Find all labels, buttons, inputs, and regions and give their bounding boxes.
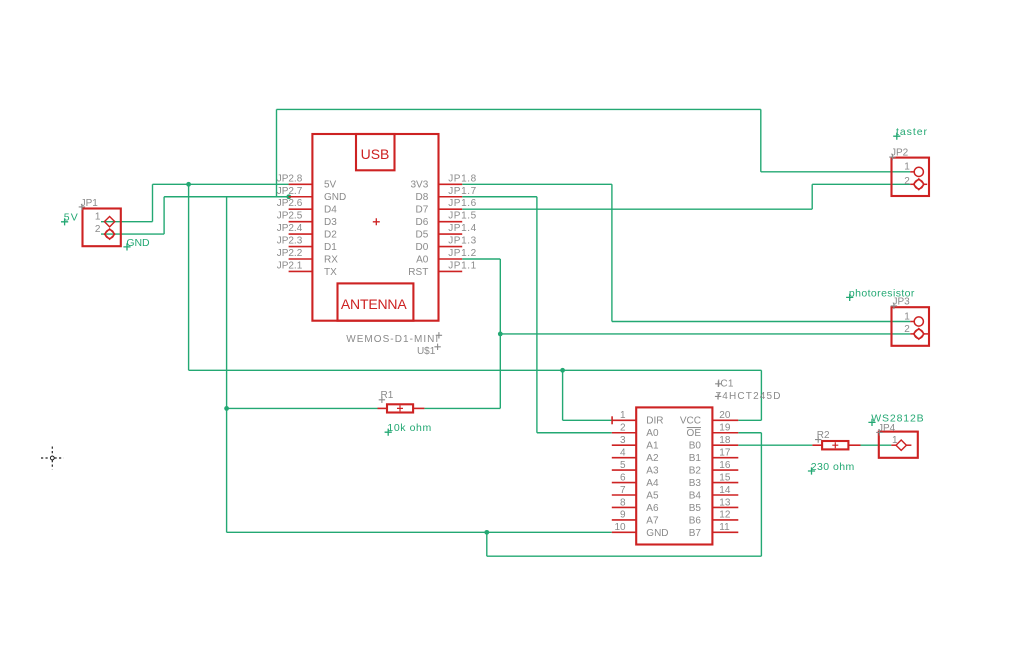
- wire net 5V: into IC1 pin20 VCC: [738, 419, 761, 421]
- junction 5V at (188.6,184.3): [186, 182, 191, 187]
- wire net 3V3: from U$1 3V3 (JP1.8): [462, 183, 612, 185]
- svg-text:taster: taster: [896, 126, 928, 138]
- U$1 left pin D2 / net label JP2.4: [277, 223, 338, 240]
- svg-text:2: 2: [95, 224, 101, 235]
- svg-text:3V3: 3V3: [411, 180, 429, 191]
- U$1 left pin TX / net label JP2.1: [277, 260, 337, 277]
- U$1 right pin D8 / net label JP1.7: [416, 186, 477, 203]
- R1 value 10k ohm: [385, 422, 432, 436]
- svg-text:2: 2: [904, 176, 910, 187]
- U$1 left pin 5V / net label JP2.8: [277, 173, 337, 190]
- connector JP2 box: [892, 158, 930, 196]
- JP3 value photoresistor: [846, 287, 915, 301]
- svg-text:B6: B6: [689, 515, 702, 526]
- svg-text:5: 5: [620, 460, 626, 471]
- JP1 pin 1: [95, 212, 115, 227]
- svg-text:D4: D4: [324, 205, 337, 216]
- wire net A0: vertical down: [499, 259, 501, 408]
- svg-text:A3: A3: [646, 466, 659, 477]
- svg-text:5V: 5V: [324, 180, 337, 191]
- wire net GND: horizontal to U$1 GND pin: [164, 196, 289, 198]
- U$1 left pin RX / net label JP2.2: [277, 248, 339, 265]
- svg-text:8: 8: [620, 497, 626, 508]
- wire net GND: horizontal to IC1 pin10 GND: [227, 531, 612, 533]
- svg-text:20: 20: [719, 410, 731, 421]
- wire net GND: top horizontal y109: [277, 108, 761, 110]
- JP1 refdes: [79, 198, 99, 210]
- svg-text:6: 6: [620, 472, 626, 483]
- resistor R2: [812, 441, 860, 449]
- svg-text:B1: B1: [689, 453, 702, 464]
- wire net D8: into IC1 pin2 A0: [537, 432, 612, 434]
- wire net TASTER: from U$1 D7 (JP1.6): [462, 208, 812, 210]
- module U$1 WEMOS-D1-MINI body: [312, 134, 438, 321]
- wire net A0: into JP3 pin2: [500, 333, 910, 335]
- svg-text:74HCT245D: 74HCT245D: [716, 391, 781, 402]
- svg-text:JP2.6: JP2.6: [277, 198, 303, 209]
- junction GND at (226.6,408.4): [224, 406, 229, 411]
- svg-text:230 ohm: 230 ohm: [811, 461, 855, 473]
- wire net 5V: vertical up: [152, 184, 154, 221]
- wire net GND: R1 left lead to GND vertical: [227, 407, 378, 409]
- wire net 5V: drop to IC1 DIR: [562, 370, 564, 420]
- svg-text:OE: OE: [687, 428, 702, 439]
- JP1 value 5V: [61, 212, 78, 226]
- svg-text:JP2.8: JP2.8: [277, 173, 303, 184]
- svg-text:B3: B3: [689, 478, 702, 489]
- U$1 left pin D4 / net label JP2.6: [277, 198, 338, 215]
- R2 value 230 ohm: [808, 461, 855, 475]
- IC1 pin 7 A5: [612, 485, 659, 502]
- svg-text:D5: D5: [416, 230, 429, 241]
- IC1 pin 13 B5: [689, 497, 739, 514]
- svg-text:4: 4: [620, 447, 626, 458]
- svg-text:U$1: U$1: [417, 346, 436, 357]
- svg-text:A6: A6: [646, 503, 659, 514]
- JP2 pin 1: [904, 161, 923, 176]
- wire net TASTER: into JP2 pin2: [812, 183, 910, 185]
- wire net A0: from U$1 A0 (JP1.2): [462, 258, 500, 260]
- svg-text:RST: RST: [408, 267, 428, 278]
- svg-text:D7: D7: [416, 205, 429, 216]
- svg-text:10k ohm: 10k ohm: [387, 422, 431, 434]
- svg-text:photoresistor: photoresistor: [849, 287, 915, 299]
- svg-text:JP1.7: JP1.7: [448, 186, 476, 197]
- U$1 right pin D0 / net label JP1.3: [416, 236, 477, 253]
- svg-text:JP1.6: JP1.6: [448, 198, 476, 209]
- IC1 pin 1 DIR: [612, 410, 664, 427]
- wire net 5V: long horizontal y370: [189, 369, 762, 371]
- svg-text:3: 3: [620, 435, 626, 446]
- svg-text:A0: A0: [416, 254, 429, 265]
- junction A0 at (500.3,333.9): [498, 332, 503, 337]
- svg-text:JP1.4: JP1.4: [448, 223, 476, 234]
- wire net GND: branch down from x486.8: [486, 532, 488, 556]
- svg-text:10: 10: [614, 522, 626, 533]
- svg-text:JP1.3: JP1.3: [448, 236, 476, 247]
- wire net GND: into IC1 pin19 OE: [738, 432, 761, 434]
- U$1 left pin GND / net label JP2.7: [277, 186, 347, 203]
- connector JP4 box: [879, 432, 918, 458]
- svg-text:WEMOS-D1-MINI: WEMOS-D1-MINI: [346, 334, 438, 345]
- svg-text:B7: B7: [689, 528, 702, 539]
- svg-text:B5: B5: [689, 503, 702, 514]
- wire net 3V3: into JP3 pin1: [612, 321, 910, 323]
- IC1 pin 9 A7: [612, 510, 659, 527]
- wire net GND: vertical up: [163, 197, 165, 234]
- wire net GND: vertical up to IC1 OE: [760, 433, 762, 556]
- IC1 pin 16 B2: [689, 460, 739, 477]
- svg-text:ANTENNA: ANTENNA: [341, 296, 407, 312]
- svg-text:B2: B2: [689, 466, 702, 477]
- svg-text:A5: A5: [646, 490, 659, 501]
- R1 refdes: [379, 390, 394, 403]
- wire net 5V: drop to IC1 VCC: [760, 370, 762, 420]
- svg-text:B4: B4: [689, 490, 702, 501]
- IC1 pin 15 B3: [689, 472, 739, 489]
- wire net A0: horizontal to R1 right lead: [424, 407, 500, 409]
- svg-text:TX: TX: [324, 267, 337, 278]
- U$1 right pin 3V3 / net label JP1.8: [411, 173, 477, 190]
- U$1 left pin D3 / net label JP2.5: [277, 211, 338, 228]
- U$1 right pin A0 / net label JP1.2: [416, 248, 477, 265]
- svg-text:VCC: VCC: [680, 416, 701, 427]
- IC1 pin 14 B4: [689, 485, 739, 502]
- svg-text:GND: GND: [324, 192, 346, 203]
- junction GND at (486.8,532.4): [484, 530, 489, 535]
- wire net GND: JP1 pin2 to vertical: [101, 233, 164, 235]
- svg-text:15: 15: [719, 472, 731, 483]
- connector JP3 box: [892, 307, 930, 346]
- JP1 pin 2: [95, 224, 115, 239]
- svg-text:13: 13: [719, 497, 731, 508]
- U$1 left pin D1 / net label JP2.3: [277, 236, 338, 253]
- JP4 value WS2812B: [868, 412, 923, 426]
- wire net D8: from U$1 D8 (JP1.7): [462, 196, 537, 198]
- JP1 net label GND: [123, 237, 150, 250]
- wire net 5V: vertical drop at x188.6: [188, 184, 190, 370]
- mouse cursor crosshair: [41, 447, 64, 470]
- svg-text:1: 1: [904, 161, 910, 172]
- IC1 pin 11 B7: [689, 522, 739, 539]
- svg-text:A7: A7: [646, 515, 659, 526]
- svg-text:JP2.3: JP2.3: [277, 236, 303, 247]
- wire net GND: horizontal y556: [487, 555, 762, 557]
- wire net D8: vertical down: [536, 197, 538, 433]
- JP4 refdes: [876, 423, 895, 436]
- junction GND at U$1 GND pin: [286, 194, 291, 199]
- JP3 pin 2: [904, 324, 928, 339]
- IC1 pin 18 B0: [689, 435, 739, 452]
- svg-text:B0: B0: [689, 441, 702, 452]
- svg-text:JP2.4: JP2.4: [277, 223, 303, 234]
- JP3 refdes: [891, 296, 910, 309]
- U$1 right pin D6 / net label JP1.5: [416, 211, 477, 228]
- IC1 pin 10 GND: [612, 522, 669, 539]
- svg-text:JP1.1: JP1.1: [448, 260, 476, 271]
- svg-text:1: 1: [892, 435, 898, 446]
- svg-text:16: 16: [719, 460, 731, 471]
- JP4 pin 1: [891, 435, 911, 450]
- svg-text:12: 12: [719, 510, 731, 521]
- wire net 5V: JP1 pin1 to vertical: [101, 221, 153, 223]
- svg-text:9: 9: [620, 510, 626, 521]
- U$1 part name WEMOS-D1-MINI: [346, 332, 442, 345]
- svg-text:1: 1: [620, 410, 626, 421]
- svg-text:D3: D3: [324, 217, 337, 228]
- svg-text:WS2812B: WS2812B: [871, 412, 924, 424]
- wire net GND: into JP2 pin1: [761, 171, 910, 173]
- wire net GND: vertical down to JP2 pin1: [760, 109, 762, 171]
- svg-text:JP1.8: JP1.8: [448, 173, 476, 184]
- svg-text:18: 18: [719, 435, 731, 446]
- svg-text:D1: D1: [324, 242, 337, 253]
- U$1 right pin D7 / net label JP1.6: [416, 198, 477, 215]
- IC1 pin 20 VCC: [680, 410, 738, 427]
- JP3 pin 1: [904, 312, 923, 327]
- IC1 value 74HCT245D: [715, 391, 781, 402]
- U$1 ANTENNA box: [338, 283, 414, 320]
- resistor R1: [378, 404, 425, 412]
- JP2 value taster: [893, 126, 927, 140]
- IC1 pin 8 A6: [612, 497, 659, 514]
- IC1 pin1 wire end tick: [611, 416, 613, 424]
- svg-text:JP2.1: JP2.1: [277, 260, 303, 271]
- wire net B0: IC1 pin18 to R2: [738, 444, 812, 446]
- svg-text:11: 11: [719, 522, 730, 533]
- IC1 pin 17 B1: [689, 447, 739, 464]
- wire net GND: vertical x226.6 down: [226, 197, 228, 533]
- IC1 pin 3 A1: [612, 435, 659, 452]
- U$1 origin cross: [373, 218, 380, 225]
- svg-text:2: 2: [904, 324, 910, 335]
- svg-text:7: 7: [620, 485, 626, 496]
- IC1 pin 12 B6: [689, 510, 739, 527]
- svg-text:D8: D8: [416, 192, 429, 203]
- wire net 5V: horizontal to U$1 5V pin: [153, 183, 289, 185]
- IC1 pin 5 A3: [612, 460, 659, 477]
- JP2 pin 2: [904, 176, 927, 190]
- IC U1 74HCT245D body: [636, 407, 712, 544]
- IC1 refdes: [715, 379, 734, 390]
- svg-text:A4: A4: [646, 478, 659, 489]
- U$1 right pin D5 / net label JP1.4: [416, 223, 477, 240]
- svg-text:A0: A0: [646, 428, 659, 439]
- IC1 pin 6 A4: [612, 472, 659, 489]
- R2 refdes: [815, 430, 830, 443]
- svg-text:DIR: DIR: [646, 416, 663, 427]
- U$1 right pin RST / net label JP1.1: [408, 260, 476, 277]
- svg-text:JP2.5: JP2.5: [277, 211, 303, 222]
- svg-text:A1: A1: [646, 441, 659, 452]
- svg-text:GND: GND: [646, 528, 668, 539]
- IC1 pin 19 OE: [687, 423, 739, 440]
- svg-text:JP1.5: JP1.5: [448, 211, 476, 222]
- svg-text:USB: USB: [361, 146, 390, 162]
- svg-text:D2: D2: [324, 230, 337, 241]
- svg-text:14: 14: [719, 485, 731, 496]
- junction 5V at (562.6,370.3): [560, 368, 565, 373]
- U$1 USB box: [356, 134, 395, 170]
- svg-text:2: 2: [620, 423, 626, 434]
- wire net TASTER: vertical up: [811, 184, 813, 209]
- svg-text:17: 17: [719, 447, 731, 458]
- svg-text:JP2.2: JP2.2: [277, 248, 303, 259]
- U$1 refdes U$1: [417, 344, 441, 358]
- connector JP1 box: [83, 209, 121, 247]
- wire net 3V3: vertical down: [611, 184, 613, 321]
- wire net GND: taster drop x276.5: [276, 109, 278, 196]
- svg-text:JP2.7: JP2.7: [277, 186, 303, 197]
- svg-text:19: 19: [719, 423, 731, 434]
- IC1 pin 2 A0: [612, 423, 659, 440]
- svg-text:1: 1: [904, 312, 910, 323]
- svg-text:D6: D6: [416, 217, 429, 228]
- wire net DATA: R2 to JP4 pin1: [861, 444, 892, 446]
- wire net 5V: into IC1 pin1 DIR: [563, 419, 612, 421]
- svg-text:JP1.2: JP1.2: [448, 248, 476, 259]
- svg-text:A2: A2: [646, 453, 659, 464]
- svg-text:1: 1: [95, 212, 101, 223]
- IC1 pin 4 A2: [612, 447, 659, 464]
- svg-text:D0: D0: [416, 242, 429, 253]
- svg-text:RX: RX: [324, 254, 338, 265]
- JP2 refdes: [889, 148, 908, 161]
